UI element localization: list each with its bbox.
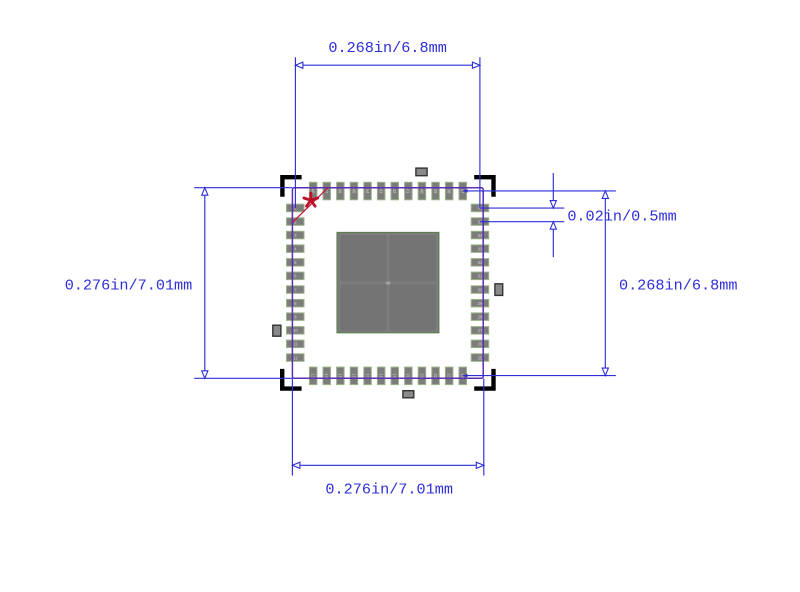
package outline / courtyard square [292, 188, 483, 379]
pad 40 (top row) [418, 182, 426, 200]
corner bracket top-left [282, 177, 301, 197]
svg-text:0.276in/7.01mm: 0.276in/7.01mm [65, 277, 193, 295]
pitch dimension extension line upper [480, 207, 564, 209]
svg-text:43: 43 [379, 189, 384, 194]
svg-text:31: 31 [478, 274, 483, 279]
svg-text:34: 34 [478, 233, 483, 238]
pad 44 (top row) [364, 182, 372, 200]
pad 46 (top row) [337, 182, 345, 200]
svg-text:30: 30 [478, 287, 483, 292]
right dimension line [602, 191, 608, 376]
pad 19 (bottom row) [391, 367, 399, 385]
left dimension line [202, 188, 208, 379]
right dimension extension line top with pointer arrow [463, 189, 616, 193]
pad 32 (right column) [471, 259, 489, 267]
orientation mark bottom [403, 391, 414, 398]
svg-text:26: 26 [478, 342, 483, 347]
svg-text:28: 28 [478, 315, 483, 320]
pad 17 (bottom row) [364, 367, 372, 385]
pad 7 (left column) [287, 286, 305, 294]
pad 26 (right column) [471, 340, 489, 348]
pad 33 (right column) [471, 245, 489, 253]
svg-text:33: 33 [478, 247, 483, 252]
pad 16 (bottom row) [350, 367, 358, 385]
svg-text:25: 25 [478, 355, 483, 360]
pad 20 (bottom row) [405, 367, 413, 385]
bottom dimension extension line right [483, 378, 485, 475]
top dimension extension line left [294, 57, 296, 208]
top dimension line [295, 62, 480, 68]
pad 27 (right column) [471, 327, 489, 335]
pad 29 (right column) [471, 299, 489, 307]
pad 18 (bottom row) [377, 367, 385, 385]
pad 24 (bottom row) [459, 367, 467, 385]
pad 43 (top row) [377, 182, 385, 200]
pad 10 (left column) [287, 327, 305, 335]
svg-text:29: 29 [478, 301, 483, 306]
pad 34 (right column) [471, 231, 489, 239]
corner bracket top-right [474, 177, 493, 197]
svg-text:0.02in/0.5mm: 0.02in/0.5mm [567, 208, 676, 226]
pad 6 (left column) [287, 272, 305, 280]
pad 48 (top row) [309, 182, 317, 200]
svg-text:41: 41 [406, 189, 411, 194]
pad 39 (top row) [432, 182, 440, 200]
pad 36 (right column) [471, 204, 489, 212]
orientation mark left [273, 325, 281, 336]
pad 38 (top row) [445, 182, 453, 200]
svg-text:0.276in/7.01mm: 0.276in/7.01mm [325, 481, 453, 499]
pad 8 (left column) [287, 299, 305, 307]
pad 13 (bottom row) [309, 367, 317, 385]
pad 22 (bottom row) [432, 367, 440, 385]
svg-text:42: 42 [392, 189, 397, 194]
bottom dimension line [292, 462, 483, 468]
svg-text:0.268in/6.8mm: 0.268in/6.8mm [619, 276, 737, 294]
pitch dimension upper leader line with arrow [550, 173, 556, 208]
pitch dimension lower leader line with arrow [550, 222, 556, 257]
pad 2 (left column) [287, 218, 305, 226]
thermal pad 49 (exposed pad) [337, 232, 439, 332]
svg-text:46: 46 [338, 189, 343, 194]
pad 47 (top row) [323, 182, 331, 200]
pad 37 (top row) [459, 182, 467, 200]
right dimension extension line bottom with pointer arrow [463, 374, 616, 378]
pad 12 (left column) [287, 354, 305, 362]
corner bracket bottom-right [474, 369, 493, 389]
pad 23 (bottom row) [445, 367, 453, 385]
pad 1 (left column) [287, 204, 305, 212]
pad 41 (top row) [405, 182, 413, 200]
svg-text:38: 38 [447, 189, 452, 194]
pad 28 (right column) [471, 313, 489, 321]
pad 4 (left column) [287, 245, 305, 253]
pad 30 (right column) [471, 286, 489, 294]
pad 5 (left column) [287, 259, 305, 267]
left dimension extension line bottom [194, 377, 292, 379]
pad 35 (right column) [471, 218, 489, 226]
svg-text:0.268in/6.8mm: 0.268in/6.8mm [328, 39, 446, 57]
svg-text:10: 10 [293, 328, 298, 333]
svg-text:39: 39 [433, 189, 438, 194]
pad 3 (left column) [287, 231, 305, 239]
svg-text:49: 49 [386, 281, 391, 286]
svg-text:12: 12 [293, 355, 298, 360]
pitch dimension extension line lower [480, 221, 564, 223]
pin 1 diagonal marker line [293, 188, 329, 223]
svg-text:32: 32 [478, 260, 483, 265]
orientation mark top [416, 168, 427, 176]
pad 11 (left column) [287, 340, 305, 348]
pad 14 (bottom row) [323, 367, 331, 385]
svg-text:27: 27 [478, 328, 483, 333]
pad 9 (left column) [287, 313, 305, 321]
orientation mark right [495, 284, 503, 296]
pad 15 (bottom row) [337, 367, 345, 385]
svg-text:11: 11 [293, 342, 298, 347]
svg-text:44: 44 [365, 189, 370, 194]
svg-text:40: 40 [419, 189, 424, 194]
pin 1 asterisk marker [304, 193, 318, 206]
bottom dimension extension line left [291, 378, 293, 475]
pad 45 (top row) [350, 182, 358, 200]
pad 21 (bottom row) [418, 367, 426, 385]
left dimension extension line top [194, 187, 292, 189]
pad 31 (right column) [471, 272, 489, 280]
corner bracket bottom-left [282, 369, 301, 389]
top dimension extension line right [479, 57, 481, 208]
pad 42 (top row) [391, 182, 399, 200]
svg-text:45: 45 [351, 189, 356, 194]
pad 25 (right column) [471, 354, 489, 362]
